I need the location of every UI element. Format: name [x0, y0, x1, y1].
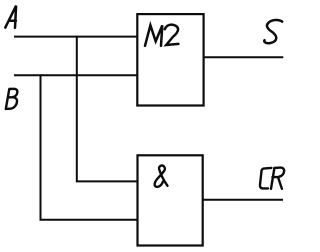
node CR label: [260, 168, 284, 189]
node A label: [5, 6, 16, 28]
AND gate label &: [155, 166, 168, 187]
wire A horizontal: [14, 36, 138, 38]
wire B tap vertical to AND input: [41, 74, 138, 220]
AND gate U2 box: [138, 155, 203, 245]
XOR gate label M2: [145, 25, 178, 46]
wire CR output: [203, 199, 283, 201]
node S label: [264, 20, 282, 43]
node B label: [6, 89, 18, 109]
wire A tap vertical to AND input: [77, 36, 138, 182]
wire B horizontal: [14, 74, 138, 76]
wire S output: [204, 56, 284, 58]
XOR gate U1 box: [137, 14, 203, 105]
